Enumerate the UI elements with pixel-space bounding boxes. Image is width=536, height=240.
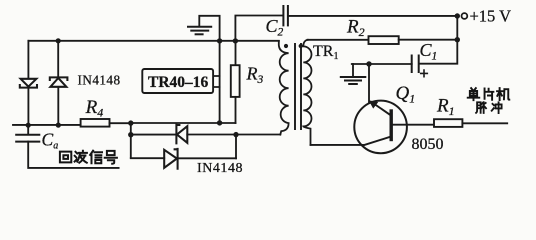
node A (R4 right, upper): [128, 120, 133, 125]
node: R2 to +15V rail: [455, 37, 460, 42]
node: emitter/ground/C1: [366, 61, 371, 66]
svg-text:Ca: Ca: [42, 130, 59, 152]
wire: [28, 40, 278, 42]
node: TR40 column bottom: [217, 120, 222, 125]
transformer core: [295, 44, 301, 129]
resistor R1: [434, 119, 462, 127]
wire: [219, 41, 221, 123]
transistor Q1: [354, 101, 407, 154]
wire: base: [393, 124, 434, 126]
ground G2: [341, 64, 366, 84]
resistor R3: [235, 41, 237, 65]
node: top wire / D2: [56, 38, 61, 43]
svg-text:8050: 8050: [412, 136, 444, 153]
label 回波信号 (echo signal): [60, 151, 117, 164]
wire: [27, 41, 29, 79]
diode D4 IN4148 (points right): [164, 149, 177, 169]
svg-text:C1: C1: [420, 40, 438, 63]
wire: [289, 15, 458, 17]
wire: [27, 88, 29, 126]
node: diode net junction: [233, 132, 238, 137]
node: D2 bottom junction: [56, 123, 61, 128]
diode D3 IN4148 (points left): [176, 125, 187, 144]
svg-text:R1: R1: [436, 95, 455, 118]
wire: [110, 122, 131, 124]
node B (R4 right, lower): [128, 132, 133, 137]
svg-text:IN4148: IN4148: [197, 161, 243, 176]
svg-text:TR40–16: TR40–16: [148, 74, 209, 91]
wire: [28, 142, 118, 168]
capacitor C2: [283, 6, 288, 25]
transformer TR1 primary winding: [279, 41, 289, 135]
wire: [187, 134, 280, 136]
node: D1-Ca junction: [26, 123, 31, 128]
wire: [178, 157, 236, 159]
wire: [131, 157, 164, 159]
wire: emitter lead: [368, 64, 370, 103]
wire A: [131, 122, 236, 124]
label 单片机 (microcontroller): [468, 88, 510, 100]
diode D2 IN4148: [50, 77, 68, 86]
phase dot right: [299, 44, 303, 48]
wire: [352, 63, 412, 65]
wire: [57, 41, 59, 78]
transducer TR40-16: [213, 76, 220, 87]
capacitor C1 (electrolytic): [412, 56, 419, 73]
wire: collector to secondary: [311, 144, 364, 146]
resistor R4: [81, 119, 110, 127]
node: C2/R3 column top: [233, 38, 238, 43]
wire: [235, 135, 237, 159]
svg-text:R4: R4: [85, 97, 104, 120]
phase dot left: [284, 44, 288, 48]
wire: +15V rail: [419, 16, 457, 64]
wire: [130, 123, 132, 158]
label 脉冲 (pulse): [476, 102, 502, 113]
wire B: [131, 134, 176, 136]
transformer TR1 secondary winding: [303, 40, 311, 145]
svg-text:R3: R3: [246, 64, 264, 86]
diode D1 IN4148: [20, 79, 37, 88]
svg-text:IN4148: IN4148: [78, 73, 121, 88]
svg-text:C2: C2: [266, 16, 284, 39]
ground G1 (top): [188, 16, 220, 41]
svg-text:Q1: Q1: [396, 83, 416, 106]
wire: [13, 124, 81, 126]
wire: [235, 16, 282, 41]
node: G1 on wire: [217, 38, 222, 43]
capacitor Ca: [27, 125, 29, 134]
+15V terminal: [455, 13, 460, 18]
svg-text:+15 V: +15 V: [470, 7, 512, 26]
svg-text:TR1: TR1: [313, 43, 338, 62]
svg-text:R2: R2: [346, 17, 365, 40]
resistor R2: [308, 39, 369, 41]
wire: [57, 87, 59, 125]
